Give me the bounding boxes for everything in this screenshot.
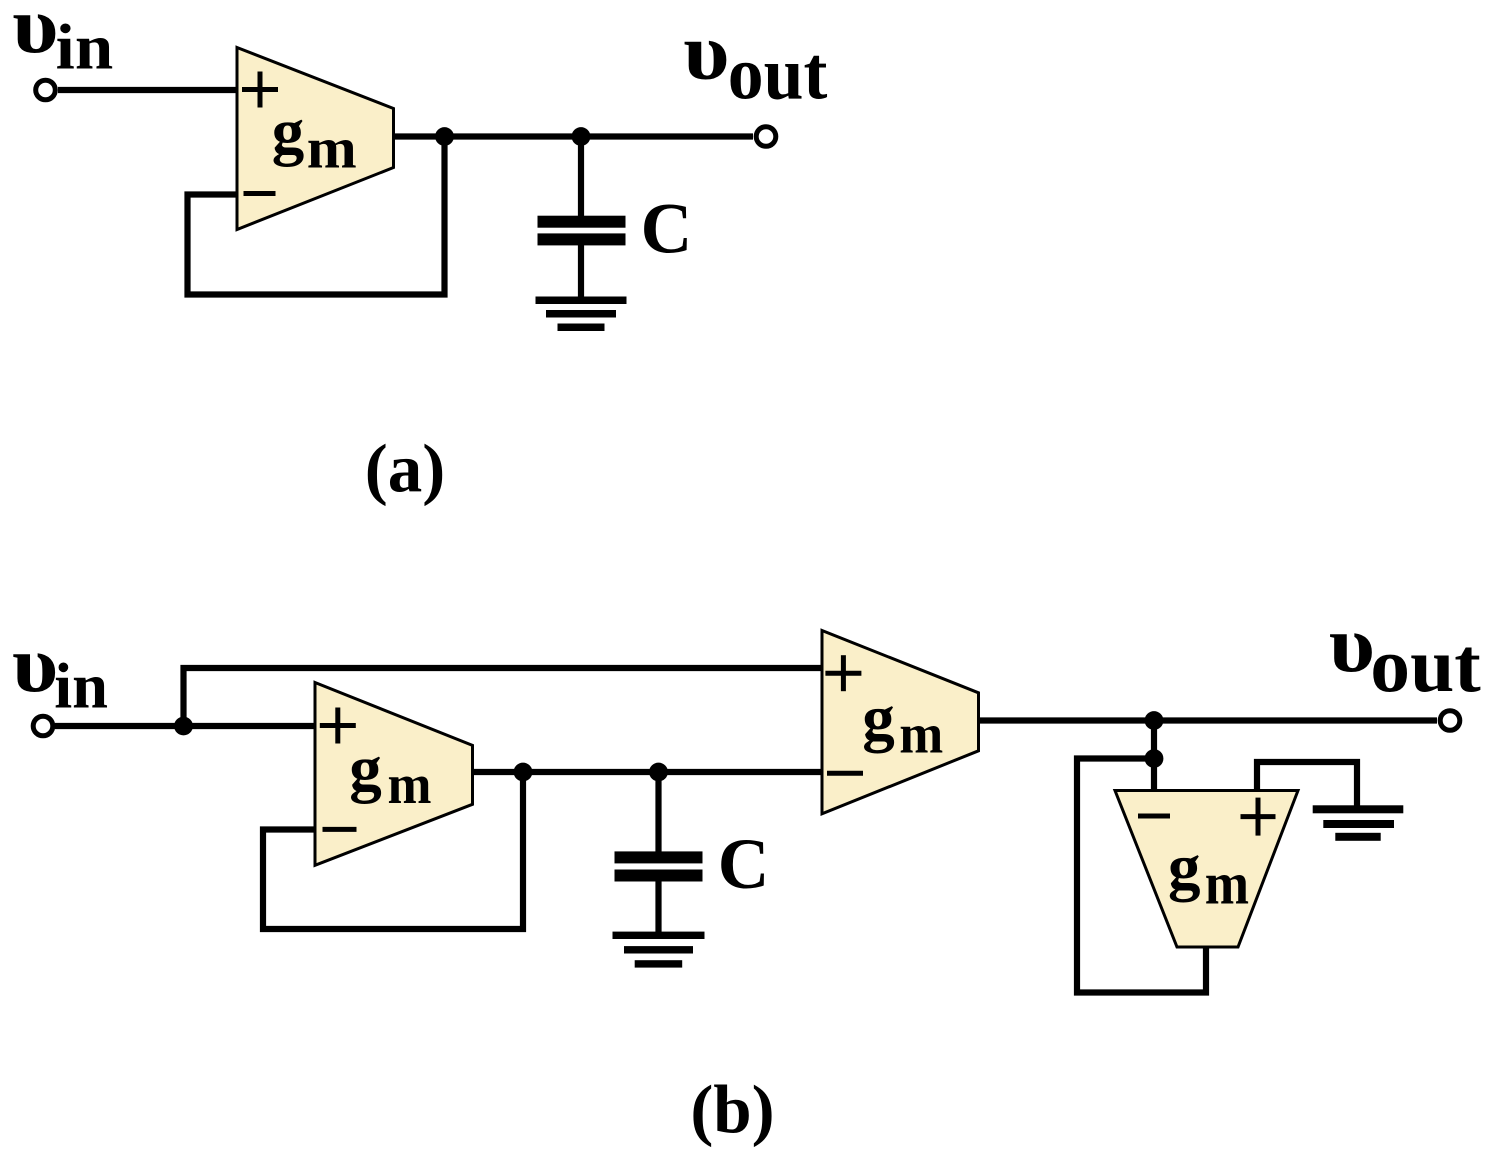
svg-text:(a): (a)	[365, 431, 445, 507]
U1 + input pin label	[242, 72, 278, 108]
svg-text:υ: υ	[12, 620, 58, 709]
svg-text:in: in	[56, 12, 113, 83]
output terminal vout (b)	[1440, 711, 1460, 731]
svg-text:υ: υ	[1329, 600, 1375, 689]
output terminal vout (a)	[756, 127, 776, 147]
wire node to capacitor C top	[578, 137, 584, 222]
svg-text:(b): (b)	[690, 1072, 774, 1148]
wire vin terminal to U2 + input	[55, 723, 320, 729]
svg-text:m: m	[388, 754, 432, 816]
svg-text:g: g	[349, 733, 382, 805]
wire U2 output to U3 - input	[469, 769, 822, 775]
junction J5 at capacitor C (b)	[649, 763, 668, 782]
U1 gm value label	[272, 95, 357, 180]
feedback wire U1 output to U1 - input	[188, 137, 445, 295]
svg-text:g: g	[1168, 831, 1201, 903]
op-amp U2 (transconductor gm, first in b)	[315, 683, 473, 866]
ground at U4 + input (b)	[1313, 805, 1404, 841]
U4 + input pin label	[1241, 798, 1276, 836]
svg-text:g: g	[272, 95, 305, 167]
wire node to capacitor C top (b)	[655, 772, 661, 857]
input terminal vin (a)	[36, 80, 56, 100]
wire capacitor C bottom to ground	[578, 240, 584, 300]
node vin label (a)	[12, 0, 113, 83]
wire capacitor C bottom to ground (b)	[655, 875, 661, 935]
junction J3 at vin (b)	[174, 717, 193, 736]
junction J1 (a)	[435, 127, 454, 146]
U3 - input pin label	[827, 771, 863, 776]
node vout label (b)	[1329, 600, 1481, 708]
svg-text:m: m	[899, 704, 943, 766]
wire U1 output to vout terminal	[390, 133, 753, 139]
ground below capacitor (b)	[613, 932, 705, 968]
U2 gm value label	[349, 733, 431, 816]
svg-text:C: C	[641, 190, 693, 269]
U4 - input pin label	[1138, 814, 1170, 819]
capacitor C (b)	[615, 851, 703, 881]
U1 - input pin label	[244, 191, 276, 196]
svg-text:out: out	[1370, 622, 1481, 708]
op-amp U4 (transconductor gm, third in b, pointing down)	[1115, 791, 1298, 948]
svg-text:in: in	[54, 651, 108, 722]
wire vin node up and over to U3 + input	[184, 668, 823, 726]
U2 - input pin label	[323, 827, 357, 832]
U4 gm value label	[1168, 831, 1249, 916]
node vin label (b)	[12, 620, 108, 722]
feedback wire U2 output to U2 - input	[263, 772, 523, 929]
svg-text:m: m	[307, 115, 357, 180]
node vout label (a)	[683, 7, 827, 115]
junction J7 at U4 - input	[1145, 749, 1164, 768]
ground (a)	[536, 297, 627, 332]
op-amp U1 (transconductor gm, circuit a)	[237, 48, 394, 230]
svg-text:υ: υ	[12, 0, 58, 70]
wire vin terminal to U1 + input	[58, 87, 242, 93]
svg-text:m: m	[1205, 851, 1249, 917]
capacitor C (a)	[538, 216, 626, 246]
wire U4 + input to ground	[1257, 762, 1357, 806]
svg-text:out: out	[728, 32, 828, 115]
junction J2 (a)	[572, 127, 591, 146]
junction J6 at U3 output	[1145, 711, 1164, 730]
svg-text:υ: υ	[683, 7, 729, 96]
input terminal vin (b)	[33, 716, 53, 736]
svg-text:g: g	[862, 682, 895, 754]
wire vout node down to U4 - input	[1151, 721, 1157, 796]
svg-text:C: C	[718, 825, 770, 904]
feedback wire U4 output to U4 - input	[1077, 759, 1206, 993]
wire U3 output to vout terminal	[975, 717, 1437, 723]
U3 + input pin label	[825, 655, 861, 691]
U2 + input pin label	[320, 708, 356, 744]
op-amp U3 (transconductor gm, second in b)	[822, 631, 979, 814]
junction J4 at U2 output	[514, 763, 533, 782]
U3 gm value label	[862, 682, 943, 766]
